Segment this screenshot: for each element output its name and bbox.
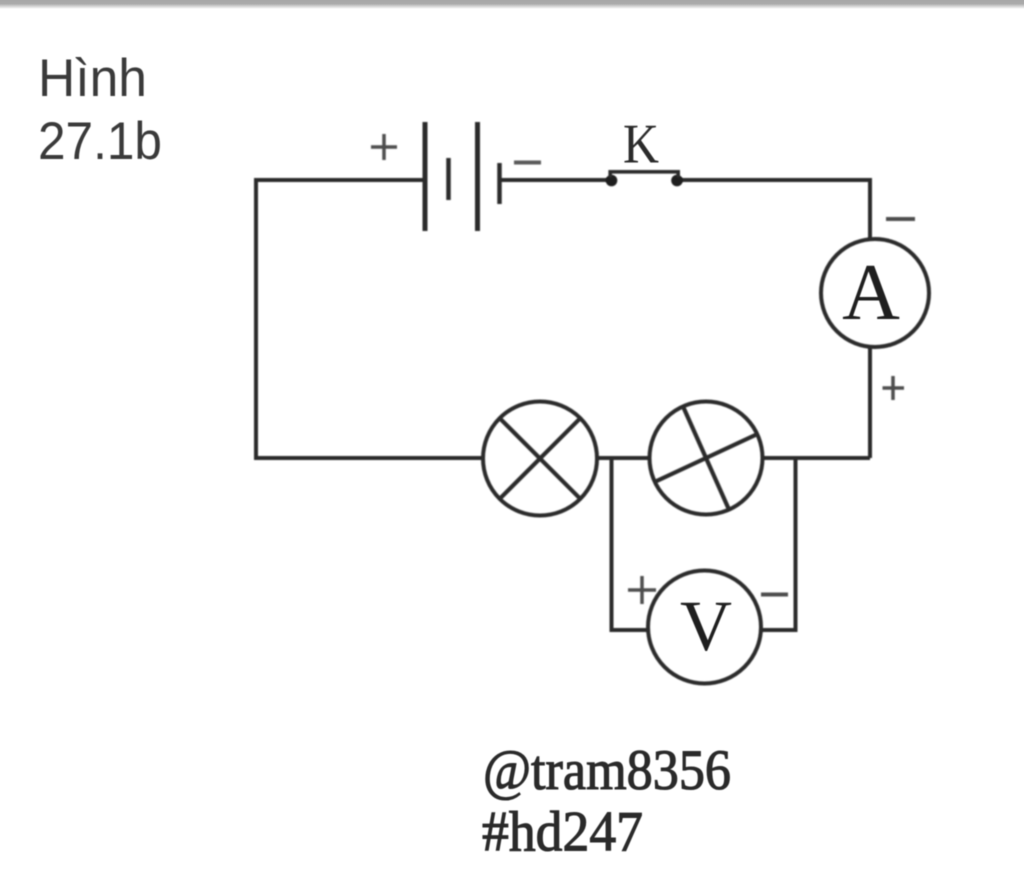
svg-text:A: A xyxy=(842,249,900,337)
svg-text:#hd247: #hd247 xyxy=(482,801,643,864)
svg-text:27.1b: 27.1b xyxy=(38,112,162,171)
svg-text:@tram8356: @tram8356 xyxy=(483,739,731,802)
svg-text:V: V xyxy=(680,586,732,666)
svg-text:Hình: Hình xyxy=(38,49,147,108)
svg-text:K: K xyxy=(623,114,659,176)
